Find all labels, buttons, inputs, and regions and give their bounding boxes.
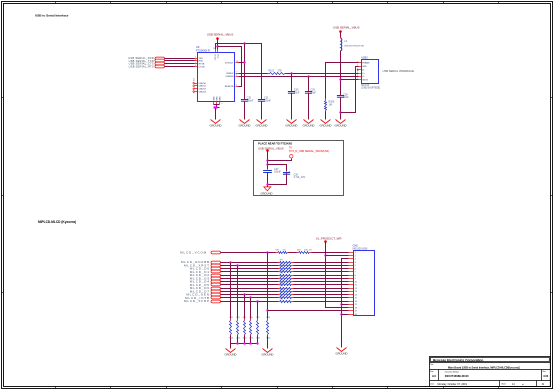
off-page connector MLCD_D0	[190, 267, 221, 271]
series resistor R74 220E	[278, 269, 294, 272]
wire resistor to CN8 pin 14	[294, 294, 349, 296]
wire 3V3OUT	[239, 62, 245, 64]
svg-text:R102: R102	[269, 71, 275, 73]
svg-text:R83: R83	[280, 299, 283, 301]
svg-text:USB SERIAL INTERFACE: USB SERIAL INTERFACE	[383, 69, 415, 73]
ground C28	[335, 120, 347, 128]
svg-text:R98: R98	[266, 317, 269, 319]
wire resistor to CN8 pin 9	[294, 278, 349, 280]
wire R93 tap down	[230, 263, 232, 319]
svg-text:USB SERIAL_VBUS: USB SERIAL_VBUS	[333, 25, 360, 29]
junction R96 tap	[249, 296, 251, 298]
off-page connector MLCD_D4	[190, 280, 221, 284]
wire MLCD_VCOM to R91	[221, 252, 276, 254]
off-page connector MLCD_D1	[190, 270, 221, 274]
svg-text:MLCD_XFRP: MLCD_XFRP	[184, 299, 210, 303]
wire USBDM to USB D-	[239, 76, 359, 78]
svg-text:GROUND: GROUND	[239, 124, 251, 128]
wire MLCD_D6 to series resistor	[221, 288, 279, 290]
connector CN8	[349, 245, 375, 316]
junction pin20 gnd	[340, 313, 342, 315]
series resistor R76 220E	[278, 276, 294, 280]
wire gnd bus to ground	[230, 344, 232, 349]
ground CN8	[336, 348, 348, 356]
note box PLACE NEAR TO FT234XD	[254, 141, 344, 196]
svg-text:GROUND: GROUND	[303, 124, 315, 128]
svg-text:R82: R82	[280, 295, 283, 297]
ground C29	[303, 120, 315, 128]
svg-text:Size: Size	[430, 371, 433, 373]
svg-text:CBUS1: CBUS1	[199, 86, 207, 88]
svg-text:GND: GND	[213, 96, 215, 101]
wire VCOM pulldown vertical	[267, 253, 269, 319]
svg-text:Title: Title	[430, 363, 433, 366]
svg-text:RXD: RXD	[199, 61, 204, 63]
wire R94 to gnd bus	[237, 336, 239, 344]
series resistor R80 220E	[278, 289, 294, 293]
wire pin17 to gnd vertical	[342, 304, 349, 306]
junction gnd bus	[256, 342, 258, 344]
capacitor C32 100nF	[241, 97, 254, 103]
svg-text:10: 10	[236, 61, 238, 63]
pulldown resistor R94 100k	[236, 317, 240, 340]
svg-text:3: 3	[357, 72, 358, 74]
svg-text:27E: 27E	[278, 71, 283, 73]
off-page connector MLCD_ENABB	[181, 260, 221, 264]
wire VCOM junction to pin 19	[268, 310, 349, 312]
svg-text:R71: R71	[280, 260, 283, 262]
svg-text:USB SERIAL_RTS: USB SERIAL_RTS	[129, 65, 154, 69]
wire MLCD_D3 to series resistor	[221, 278, 279, 280]
wire R92 to pin 1	[312, 252, 349, 254]
junction LV pin2	[324, 254, 326, 256]
capacitor C28 10nF	[337, 93, 349, 99]
wire C30 tap	[291, 74, 293, 92]
junction D+ C30	[290, 72, 292, 74]
wire R102 to USB D+	[286, 73, 359, 75]
svg-text:CTSB: CTSB	[199, 67, 205, 69]
wire USB SERIAL_TXD to U9	[165, 60, 195, 62]
off-page connector MLCD_D7	[190, 289, 221, 293]
svg-text:PLACE NEAR TO FT234XD: PLACE NEAR TO FT234XD	[258, 141, 292, 145]
svg-text:Document Number: Document Number	[445, 370, 460, 373]
off-page connector USB SERIAL_CTS	[129, 62, 165, 66]
svg-text:CBUS3: CBUS3	[199, 92, 207, 94]
svg-text:USB2: USB2	[361, 57, 368, 60]
junction gnd C28	[339, 111, 341, 113]
junction VCCIO rail	[243, 42, 245, 44]
off-page connector MLCD_XFRP	[184, 299, 221, 303]
svg-text:22E_TN: 22E_TN	[304, 250, 312, 252]
pulldown resistor R98 100k	[266, 317, 270, 340]
junction gnd bus	[236, 342, 238, 344]
junction D- C29	[307, 75, 309, 77]
wire R96 to gnd bus	[250, 336, 252, 344]
svg-text:MLCD_VCOM: MLCD_VCOM	[180, 250, 207, 254]
svg-text:(1982-B-5P76DE): (1982-B-5P76DE)	[361, 87, 380, 90]
wire LV to pin 2	[326, 255, 349, 257]
pulldown resistor R97 100k	[256, 317, 260, 340]
wire VCCIO to 3V3OUT and C32	[244, 44, 246, 100]
wire USB SERIAL_CTS to U9	[165, 63, 195, 65]
svg-text:2: 2	[195, 62, 196, 64]
wire USB SERIAL_RTS to U9	[165, 66, 195, 68]
wire MLCD_D0 to series resistor	[221, 268, 279, 270]
inductor L4	[341, 37, 365, 52]
ground R98	[262, 349, 274, 357]
svg-text:R93: R93	[229, 317, 232, 319]
svg-text:GROUND: GROUND	[261, 192, 273, 196]
wire R94 tap down	[237, 266, 239, 319]
wire U9 GND pins tie	[214, 105, 220, 120]
off-page connector MLCD_D2	[190, 273, 221, 277]
resistor R105 1M	[325, 99, 335, 113]
svg-text:USBDP: USBDP	[226, 73, 234, 75]
wire USB SERIAL_RXD to U9	[165, 58, 195, 60]
series resistor R77 220E	[278, 279, 294, 282]
junction 3V3OUT	[243, 61, 245, 63]
junction R94 tap	[236, 264, 238, 266]
svg-text:VCCIO: VCCIO	[213, 54, 215, 61]
junction T8 tap	[266, 159, 268, 161]
capacitor C27 100uF	[263, 168, 281, 174]
svg-text:FRAME: FRAME	[362, 62, 370, 65]
wire T8 to VBUS	[268, 159, 292, 161]
svg-text:R80: R80	[280, 289, 283, 291]
svg-text:VBUS: VBUS	[362, 79, 368, 81]
off-page connector USB SERIAL_RXD	[128, 56, 164, 60]
svg-text:Renesas Electronics Corporatio: Renesas Electronics Corporation	[433, 358, 483, 362]
svg-text:12: 12	[213, 48, 215, 50]
svg-text:VCC: VCC	[216, 54, 218, 59]
ground C31	[256, 120, 268, 128]
power flag LV_PRODUCT_WR	[316, 236, 342, 243]
svg-text:5: 5	[357, 65, 358, 67]
svg-text:R94: R94	[236, 317, 239, 319]
wire MLCD_D5 to series resistor	[221, 284, 279, 286]
wire MLCD_D7 to series resistor	[221, 291, 279, 293]
svg-text:R78: R78	[280, 282, 283, 284]
wire R98 to ground	[267, 336, 269, 349]
test point T8	[289, 147, 329, 159]
wire resistor to CN8 pin 6	[294, 268, 349, 270]
wire VBUS pin	[341, 79, 359, 81]
svg-text:Monday, October 07, 2019: Monday, October 07, 2019	[438, 383, 468, 386]
wire VBUS to VCC pin	[217, 39, 219, 50]
wire MLCD_ENABB to series resistor	[221, 262, 279, 264]
wire MLCD_INTB to series resistor	[221, 297, 279, 299]
junction U9 gnd a	[213, 106, 215, 108]
wire MLCD_D4 to series resistor	[221, 281, 279, 283]
capacitor C29 47pF	[305, 89, 316, 95]
off-page connector MLCD_D3	[190, 276, 221, 280]
junction gnd note box	[266, 183, 268, 185]
wire VCC rail to RESETB	[218, 47, 242, 87]
svg-text:7: 7	[236, 72, 237, 74]
ground pulldown bus	[225, 349, 237, 357]
svg-text:R20UT4668EJ0100: R20UT4668EJ0100	[445, 374, 469, 378]
svg-text:RTSB: RTSB	[199, 64, 205, 66]
svg-text:CBUS0: CBUS0	[199, 83, 207, 85]
svg-text:FT234XD-R: FT234XD-R	[196, 48, 210, 52]
svg-text:6: 6	[357, 61, 358, 63]
svg-text:USB SERIAL_VBUS: USB SERIAL_VBUS	[207, 33, 234, 37]
svg-text:3.00: 3.00	[543, 374, 549, 378]
off-page connector MLCD_VCOM	[180, 250, 220, 254]
ground U9	[210, 120, 222, 128]
wire resistor to CN8 pin 11	[294, 284, 349, 286]
series resistor R81 220E	[278, 292, 294, 295]
svg-text:4.7uF_16V: 4.7uF_16V	[294, 176, 306, 179]
wire R105 to ground	[325, 112, 327, 120]
junction R93 tap	[229, 261, 231, 263]
wire CN8 pin3 gnd vertical	[342, 259, 349, 348]
wire USB2 GND pin routing	[341, 67, 359, 113]
junction gnd bus	[249, 342, 251, 344]
svg-text:R97: R97	[256, 317, 259, 319]
wire R96 tap down	[250, 298, 252, 319]
svg-text:T10 T11 T12 T13: T10 T11 T12 T13	[194, 77, 196, 93]
svg-text:1: 1	[357, 78, 358, 80]
junction VCOM pulldown	[266, 251, 268, 253]
svg-text:100k: 100k	[249, 338, 253, 340]
svg-text:TNT_D_USB SERIAL_VBUS(FNF): TNT_D_USB SERIAL_VBUS(FNF)	[289, 149, 329, 153]
series resistor R83 220E	[278, 299, 294, 303]
IC U9 FT234XD	[193, 45, 239, 105]
wire C30 to ground	[291, 93, 293, 120]
svg-text:CN8: CN8	[353, 245, 359, 248]
svg-text:1: 1	[195, 57, 196, 59]
series resistor R82 220E	[278, 295, 294, 298]
svg-text:MIPLCD-MLCD (Kyocera): MIPLCD-MLCD (Kyocera)	[38, 220, 76, 224]
svg-text:R74: R74	[280, 269, 283, 271]
svg-text:RESETB: RESETB	[225, 86, 234, 88]
svg-text:D-: D-	[362, 76, 365, 78]
svg-text:R81: R81	[280, 292, 283, 294]
power flag USB SERIAL_VBUS (U9)	[207, 33, 234, 40]
junction VBUS pin	[339, 78, 341, 80]
wire C29 to ground	[308, 93, 310, 120]
wire MLCD_XRST to series resistor	[221, 265, 279, 267]
wire R95 tap down	[244, 295, 246, 319]
svg-text:GROUND: GROUND	[335, 124, 347, 128]
pulldown resistor R95 100k	[243, 317, 247, 340]
wire C26 to gnd rail	[268, 174, 287, 185]
pulldown resistor R96 100k	[249, 317, 253, 340]
off-page connector MLCD_D5	[190, 283, 221, 287]
off-page connector USB SERIAL_TXD	[129, 59, 165, 63]
svg-text:GROUND: GROUND	[256, 124, 268, 128]
wire MLCD_D2 to series resistor	[221, 275, 279, 277]
svg-text:R95: R95	[243, 317, 246, 319]
power flag USB SERIAL_VBUS (USB2)	[333, 25, 360, 32]
svg-text:R75: R75	[280, 273, 283, 275]
svg-text:R76: R76	[280, 276, 283, 278]
svg-text:4: 4	[236, 85, 237, 87]
off-page connector USB SERIAL_RTS	[129, 65, 165, 69]
junction gnd bus	[243, 342, 245, 344]
svg-text:LV_PRODUCT_WR: LV_PRODUCT_WR	[316, 236, 342, 240]
wire VBUS flag to L4	[340, 32, 342, 38]
capacitor C30 47pF	[288, 89, 300, 95]
svg-text:4: 4	[195, 59, 196, 61]
junction VCOM to pin 19	[266, 309, 268, 311]
svg-text:R72: R72	[280, 263, 283, 265]
off-page connector MLCD_INTB	[185, 296, 220, 300]
svg-text:100k: 100k	[266, 338, 270, 340]
wire R97 tap down	[257, 302, 259, 319]
wire resistor to CN8 pin 5	[294, 265, 349, 267]
series resistor R72 220E	[278, 263, 294, 267]
svg-text:0451320-1828: 0451320-1828	[353, 249, 369, 251]
svg-text:100nF: 100nF	[247, 100, 254, 103]
gnd bus pulldowns	[231, 343, 258, 345]
off-page connector MLCD_XRST	[184, 263, 221, 267]
wire LV_PRODUCT_WR vertical	[326, 242, 349, 308]
svg-text:TXD: TXD	[199, 58, 204, 60]
junction R97 tap	[256, 300, 258, 302]
svg-text:100nF: 100nF	[264, 100, 271, 103]
svg-text:GROUND: GROUND	[320, 124, 332, 128]
off-page connector MLCD_D6	[190, 286, 221, 290]
svg-text:Date:: Date:	[430, 382, 435, 385]
resistor R92 22E_TN	[297, 250, 313, 254]
series resistor R78 220E	[278, 282, 294, 285]
ground triangle note box	[261, 187, 273, 196]
power flag USB SERIAL_VBUS (note box)	[258, 147, 284, 152]
wire FRAME to R105	[326, 63, 359, 99]
wire MLCD_D1 to series resistor	[221, 271, 279, 273]
wire C28 to ground junction	[340, 98, 342, 120]
wire C29 tap	[308, 77, 310, 92]
svg-text:GROUND: GROUND	[262, 353, 274, 357]
series resistor R71 220E	[278, 260, 294, 264]
wire MLCD_XFRP to series resistor	[221, 301, 279, 303]
wire resistor to CN8 pin 4	[294, 262, 349, 264]
svg-text:Sheet: Sheet	[501, 382, 506, 385]
junction R95 tap	[243, 293, 245, 295]
svg-text:47pF: 47pF	[310, 92, 316, 95]
wire R91 to R92	[289, 252, 297, 254]
junction U9 gnd b	[215, 106, 217, 108]
wire pin20 to gnd vertical	[342, 314, 349, 316]
no-connect dot ID pin	[357, 69, 359, 71]
svg-text:47pF: 47pF	[294, 92, 300, 95]
svg-text:GROUND: GROUND	[225, 353, 237, 357]
svg-text:USBDM: USBDM	[226, 76, 234, 78]
svg-text:A3: A3	[432, 374, 436, 378]
wire R93 to gnd bus	[230, 336, 232, 344]
series resistor R73 220E	[278, 266, 294, 269]
svg-text:3V3OUT: 3V3OUT	[225, 63, 234, 65]
wire VCCIO rail	[216, 44, 262, 100]
svg-text:GND: GND	[362, 66, 367, 68]
ground C30	[286, 120, 298, 128]
off-page connector MLCD_GEN	[186, 293, 220, 297]
wire R97 to gnd bus	[257, 336, 259, 344]
svg-text:BKE2B72HS(1KTB): BKE2B72HS(1KTB)	[345, 45, 365, 47]
junction pin17 gnd	[340, 303, 342, 305]
wire resistor to CN8 pin 8	[294, 275, 349, 277]
wire MLCD_GEN to series resistor	[221, 294, 279, 296]
svg-text:USB to Serial Interface: USB to Serial Interface	[35, 13, 69, 17]
pulldown resistor R93 100k	[229, 317, 233, 340]
wire resistor to CN8 pin 7	[294, 271, 349, 273]
svg-text:Rev: Rev	[543, 371, 546, 373]
wire resistor to CN8 pin 16	[294, 301, 349, 303]
resistor R102 27E	[268, 71, 287, 75]
svg-text:100uF: 100uF	[274, 171, 281, 174]
svg-text:USB SERIAL_VBUS: USB SERIAL_VBUS	[258, 147, 284, 151]
svg-text:1M: 1M	[329, 103, 332, 106]
svg-text:10nF: 10nF	[343, 96, 349, 99]
svg-text:2: 2	[357, 75, 358, 77]
capacitor C26 4.7uF	[283, 171, 306, 179]
capacitor C31 100nF	[258, 97, 272, 103]
wire resistor to CN8 pin 12	[294, 288, 349, 290]
ground C32	[239, 120, 251, 128]
junction VCC	[216, 45, 218, 47]
wire C27 to ground	[267, 173, 269, 187]
wire USBDP to R102	[239, 73, 268, 75]
svg-text:GROUND: GROUND	[210, 124, 222, 128]
svg-text:6: 6	[236, 75, 237, 77]
title block	[430, 357, 551, 387]
wire VBUS down to C27	[267, 151, 269, 170]
ground R105	[320, 120, 332, 128]
svg-text:GND: GND	[219, 96, 221, 101]
wire resistor to CN8 pin 15	[294, 297, 349, 299]
svg-text:CBUS2: CBUS2	[199, 89, 207, 91]
wire C26 branch	[268, 165, 287, 172]
wire C31 to ground	[261, 102, 263, 120]
wire C32 to ground	[244, 102, 246, 120]
wire resistor to CN8 pin 10	[294, 281, 349, 283]
svg-text:R73: R73	[280, 266, 283, 268]
svg-text:GROUND: GROUND	[286, 124, 298, 128]
svg-text:100k: 100k	[229, 338, 233, 340]
svg-text:6: 6	[195, 65, 196, 67]
resistor R91 22k	[276, 250, 290, 254]
svg-text:GND: GND	[216, 96, 218, 101]
series resistor R75 220E	[278, 273, 294, 277]
svg-text:R77: R77	[280, 279, 283, 281]
wire R95 to gnd bus	[244, 336, 246, 344]
svg-text:R79: R79	[280, 286, 283, 288]
series resistor R79 220E	[278, 286, 294, 290]
wire L4 to VBUS pin and C28	[340, 51, 342, 96]
svg-text:R96: R96	[249, 317, 252, 319]
connector USB2 USB SERIAL INTERFACE	[357, 57, 380, 90]
svg-text:GROUND: GROUND	[336, 352, 348, 356]
junction C26 tap	[266, 163, 268, 165]
wire resistor to CN8 pin 13	[294, 291, 349, 293]
